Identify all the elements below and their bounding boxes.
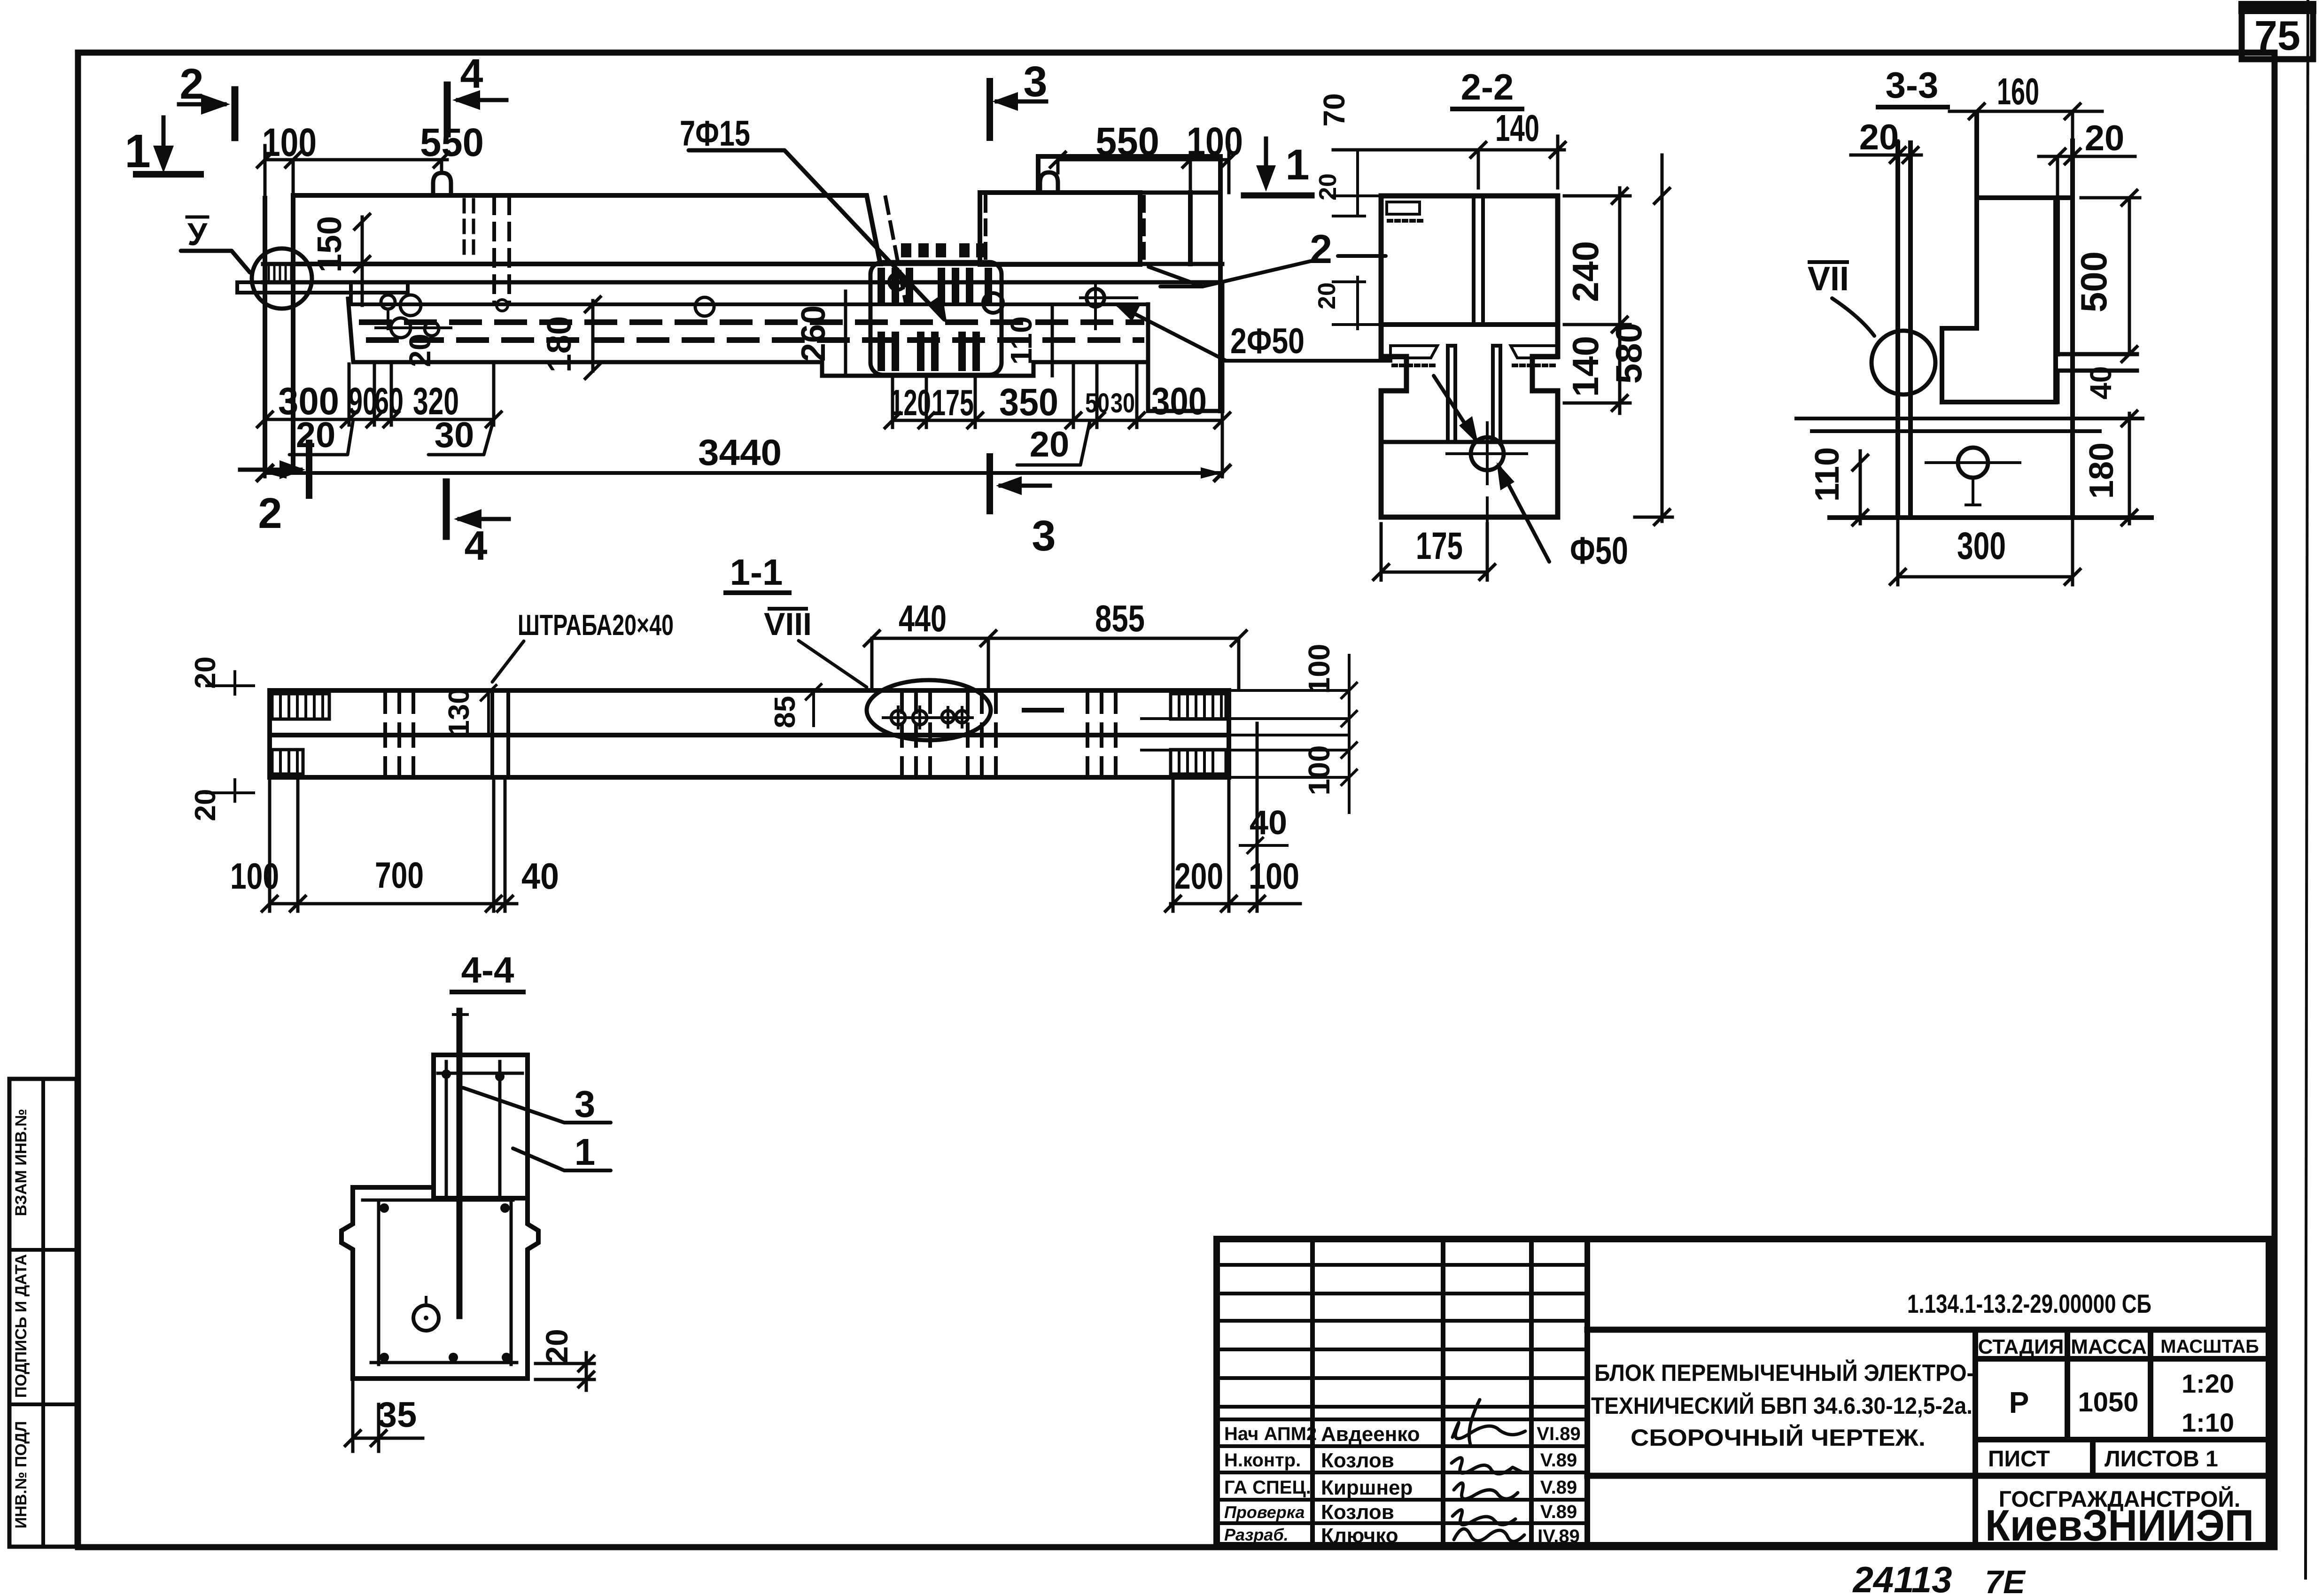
- svg-text:1050: 1050: [2078, 1387, 2138, 1418]
- title block vertical dividers: [1310, 1239, 1315, 1545]
- svg-text:440: 440: [899, 597, 947, 639]
- right lifting loop: [1040, 172, 1058, 193]
- section 2-2 body outline: [1381, 196, 1558, 517]
- left sub-table row lines: [1217, 1263, 1587, 1267]
- right top band: [1038, 156, 1220, 193]
- svg-text:100: 100: [1302, 644, 1336, 694]
- svg-text:150: 150: [311, 216, 349, 272]
- svg-text:20: 20: [1313, 282, 1341, 310]
- dentil strip top left: [1387, 202, 1420, 214]
- hole in base: [1958, 448, 1988, 478]
- svg-text:40: 40: [2084, 366, 2118, 399]
- section 1-1 plan view: [189, 551, 1357, 911]
- leader 3: [463, 1088, 611, 1123]
- extra rebar circles on shelf: [497, 300, 508, 311]
- svg-text:100: 100: [1302, 745, 1336, 796]
- right raised box: [980, 193, 1140, 264]
- svg-text:100: 100: [230, 855, 279, 897]
- plan outline top line: [270, 688, 1229, 693]
- ground lines: [1796, 417, 2143, 420]
- svg-text:1: 1: [124, 125, 151, 178]
- groove tick cluster A: [385, 690, 413, 777]
- keyed joint hatch left top: [272, 694, 329, 774]
- plan right end: [1227, 690, 1231, 777]
- detail circle У: [252, 248, 312, 309]
- junction circles centre: [889, 274, 905, 290]
- svg-text:Ключко: Ключко: [1321, 1524, 1398, 1547]
- lower stirrup: [363, 1200, 517, 1364]
- svg-text:500: 500: [2073, 251, 2114, 312]
- main elevation view: [124, 50, 1390, 569]
- svg-text:VI.89: VI.89: [1537, 1424, 1580, 1444]
- groove tick cluster D: [968, 690, 996, 777]
- svg-text:2Ф50: 2Ф50: [1230, 321, 1305, 361]
- svg-text:Козлов: Козлов: [1321, 1501, 1394, 1524]
- groove tick cluster E: [1087, 690, 1116, 777]
- svg-text:85: 85: [769, 696, 801, 728]
- groove tick cluster B: [492, 690, 508, 777]
- left wall verticals: [1898, 143, 1910, 518]
- handwritten archive numbers: [1852, 1559, 2026, 1596]
- svg-text:ГА СПЕЦ.: ГА СПЕЦ.: [1224, 1477, 1311, 1498]
- diagonal dashed break: [885, 197, 906, 303]
- svg-text:VII: VII: [1808, 260, 1849, 298]
- right lower step: [1148, 284, 1222, 411]
- svg-text:70: 70: [1317, 93, 1351, 126]
- svg-text:ТЕХНИЧЕСКИЙ БВП 34.6.30-12,5-2: ТЕХНИЧЕСКИЙ БВП 34.6.30-12,5-2а.: [1591, 1392, 1973, 1419]
- plan bottom line: [270, 775, 1229, 780]
- svg-text:20: 20: [1030, 425, 1070, 465]
- anchors in oval: [891, 711, 905, 725]
- svg-text:175: 175: [932, 382, 974, 423]
- ledge: [353, 1185, 434, 1190]
- inner walls lower: [1448, 346, 1500, 442]
- lower teeth line: [1381, 440, 1558, 444]
- groove tick cluster C: [902, 690, 930, 777]
- channel and body profile: [1942, 115, 2056, 402]
- svg-text:35: 35: [377, 1395, 417, 1435]
- svg-text:1.134.1-13.2-29.00000 СБ: 1.134.1-13.2-29.00000 СБ: [1907, 1289, 2151, 1318]
- svg-text:75: 75: [2254, 12, 2300, 59]
- keyed joint hatch right: [1171, 694, 1226, 774]
- rod thread hatch: [269, 266, 291, 280]
- left lifting loop: [433, 173, 451, 195]
- anchor rod protruding at left: [237, 282, 408, 293]
- rebar circles cluster left: [381, 295, 395, 309]
- svg-text:Разраб.: Разраб.: [1224, 1525, 1289, 1544]
- svg-text:175: 175: [1416, 525, 1463, 567]
- svg-text:IV.89: IV.89: [1538, 1526, 1580, 1547]
- arrow from Ф50 label: [1499, 467, 1549, 562]
- svg-text:3440: 3440: [698, 432, 782, 473]
- title block: [1217, 1239, 2269, 1550]
- svg-text:Козлов: Козлов: [1321, 1449, 1394, 1472]
- svg-text:30: 30: [1111, 388, 1135, 418]
- hidden vertical dashes in band: [492, 197, 496, 303]
- page right edge line: [2306, 0, 2308, 1578]
- plan mid line: [270, 733, 1229, 737]
- svg-text:140: 140: [1495, 107, 1539, 149]
- shtraba marks above box: [901, 243, 986, 257]
- cable box detail centre: [870, 262, 1002, 375]
- svg-text:V.89: V.89: [1540, 1450, 1577, 1471]
- oval detail VIII: [867, 680, 991, 740]
- svg-text:3-3: 3-3: [1886, 64, 1939, 106]
- svg-text:550: 550: [1095, 119, 1159, 163]
- upper stirrup: [438, 1061, 522, 1198]
- svg-text:2: 2: [258, 489, 282, 537]
- svg-text:Киршнер: Киршнер: [1321, 1476, 1413, 1499]
- right end column: [1190, 193, 1220, 411]
- svg-text:40: 40: [521, 855, 559, 897]
- svg-text:7Ф15: 7Ф15: [680, 114, 750, 154]
- dentil strips mid: [1390, 346, 1558, 358]
- svg-text:Авдеенко: Авдеенко: [1321, 1423, 1420, 1446]
- hole circle: [413, 1305, 439, 1331]
- svg-text:700: 700: [375, 854, 424, 896]
- section 4-4: [342, 949, 611, 1451]
- svg-text:4: 4: [465, 522, 488, 569]
- svg-text:СТАДИЯ: СТАДИЯ: [1978, 1335, 2064, 1358]
- svg-text:200: 200: [1174, 855, 1223, 897]
- mid horizontal: [1381, 322, 1558, 327]
- shelf band top line: [263, 262, 1222, 266]
- svg-text:Ф50: Ф50: [1570, 529, 1628, 572]
- hidden vertical dashes right: [984, 197, 987, 263]
- svg-text:240: 240: [1565, 241, 1606, 302]
- svg-text:180: 180: [2083, 442, 2120, 499]
- svg-text:130: 130: [443, 688, 475, 736]
- svg-text:1:20: 1:20: [2182, 1369, 2234, 1398]
- svg-text:ЛИСТОВ 1: ЛИСТОВ 1: [2105, 1447, 2218, 1472]
- left end column: [265, 195, 293, 470]
- bottom edge: [1830, 515, 2151, 520]
- svg-text:V.89: V.89: [1540, 1502, 1577, 1522]
- svg-text:110: 110: [1809, 447, 1846, 502]
- svg-text:ШТРАБА20×40: ШТРАБА20×40: [518, 609, 674, 642]
- svg-text:ПИСТ: ПИСТ: [1988, 1447, 2050, 1472]
- svg-text:3: 3: [575, 1083, 596, 1125]
- svg-text:Нач АПМ2: Нач АПМ2: [1224, 1424, 1317, 1444]
- lower box outline: [342, 1187, 538, 1379]
- hole Ф50: [1471, 437, 1504, 470]
- hidden dash row 1: [362, 319, 1142, 325]
- svg-text:СБОРОЧНЫЙ ЧЕРТЕЖ.: СБОРОЧНЫЙ ЧЕРТЕЖ.: [1631, 1424, 1926, 1451]
- cable box hatch row 1: [878, 268, 992, 371]
- svg-text:100: 100: [262, 120, 317, 164]
- svg-text:110: 110: [1004, 316, 1038, 364]
- svg-text:2: 2: [179, 60, 203, 108]
- section 2-2: [1313, 66, 1672, 580]
- svg-text:160: 160: [1997, 70, 2039, 112]
- svg-text:МАСШТАБ: МАСШТАБ: [2160, 1336, 2259, 1357]
- upper box: [434, 1055, 528, 1198]
- leader 1: [513, 1148, 611, 1170]
- svg-text:40: 40: [1250, 804, 1287, 842]
- svg-text:Проверка: Проверка: [1224, 1503, 1305, 1522]
- detail circle VII: [1872, 331, 1935, 395]
- svg-text:30: 30: [435, 415, 474, 455]
- svg-text:ПОДПИСЬ И ДАТА: ПОДПИСЬ И ДАТА: [12, 1254, 30, 1398]
- svg-text:БЛОК ПЕРЕМЫЧЕЧНЫЙ ЭЛЕКТРО-: БЛОК ПЕРЕМЫЧЕЧНЫЙ ЭЛЕКТРО-: [1594, 1359, 1974, 1386]
- svg-text:2-2: 2-2: [1461, 66, 1514, 108]
- loop legs hidden: [464, 200, 474, 261]
- step vertical left: [349, 284, 353, 301]
- inner wall upper: [1474, 196, 1483, 325]
- svg-text:20: 20: [539, 1329, 574, 1363]
- lower band bottom edge left: [348, 299, 1148, 376]
- svg-text:20: 20: [189, 657, 222, 689]
- svg-text:580: 580: [1608, 323, 1649, 384]
- svg-text:20: 20: [296, 415, 336, 455]
- svg-text:Р: Р: [2009, 1386, 2029, 1419]
- svg-text:180: 180: [541, 316, 578, 372]
- svg-text:300: 300: [1151, 380, 1207, 423]
- svg-text:1: 1: [575, 1131, 596, 1173]
- page number box 75: [2242, 7, 2313, 59]
- svg-text:3: 3: [1023, 58, 1047, 106]
- main bar: [457, 1011, 463, 1316]
- svg-text:4-4: 4-4: [461, 949, 514, 991]
- svg-text:КиевЗНИИЭП: КиевЗНИИЭП: [1985, 1501, 2254, 1550]
- svg-text:20: 20: [403, 333, 437, 367]
- svg-text:ИНВ.№ ПОДЛ: ИНВ.№ ПОДЛ: [12, 1421, 30, 1529]
- slot 40 right: [2058, 354, 2137, 402]
- svg-text:V.89: V.89: [1540, 1477, 1577, 1498]
- hidden dash row 2: [369, 337, 1142, 343]
- svg-text:20: 20: [1859, 117, 1899, 157]
- svg-text:24113: 24113: [1852, 1559, 1952, 1596]
- svg-text:300: 300: [1957, 525, 2006, 567]
- right wall: [2058, 141, 2073, 518]
- svg-text:VIII: VIII: [764, 606, 812, 642]
- svg-text:ВЗАМ ИНВ.№: ВЗАМ ИНВ.№: [12, 1109, 30, 1216]
- svg-text:1-1: 1-1: [730, 551, 783, 593]
- left top band outline: [293, 195, 880, 264]
- svg-text:МАССА: МАССА: [2071, 1335, 2147, 1358]
- svg-text:3: 3: [1032, 512, 1056, 560]
- top edge: [1977, 195, 2073, 200]
- svg-text:Н.контр.: Н.контр.: [1224, 1450, 1301, 1471]
- shelf band bottom line: [263, 280, 1222, 285]
- arrow to hole upper: [1434, 376, 1475, 439]
- svg-text:У: У: [187, 217, 208, 252]
- svg-text:1: 1: [1285, 141, 1309, 189]
- lower band top edge: [351, 302, 1148, 306]
- svg-text:4: 4: [460, 50, 483, 97]
- svg-text:140: 140: [1565, 336, 1606, 397]
- title block horizontal dividers: [1587, 1327, 2269, 1333]
- svg-text:855: 855: [1095, 597, 1145, 639]
- svg-text:7Е: 7Е: [1985, 1564, 2026, 1596]
- svg-text:260: 260: [795, 305, 832, 362]
- svg-text:350: 350: [999, 381, 1058, 424]
- svg-text:1:10: 1:10: [2182, 1408, 2234, 1437]
- left margin stamp column: [9, 1079, 77, 1547]
- section 3-3: [1796, 64, 2151, 585]
- plan left end: [267, 690, 272, 777]
- svg-text:550: 550: [420, 120, 484, 164]
- short dash mid right: [1024, 708, 1062, 713]
- svg-text:20: 20: [2085, 118, 2125, 158]
- signatures squiggles: [1452, 1400, 1525, 1542]
- svg-text:2: 2: [1310, 227, 1332, 272]
